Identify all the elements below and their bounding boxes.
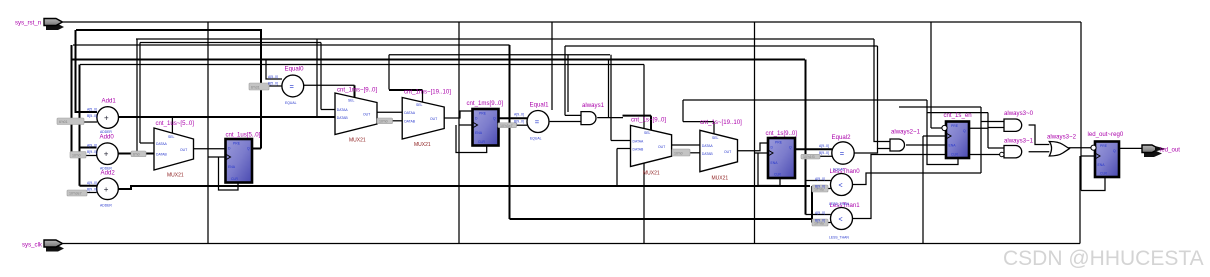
svg-text:+: +	[104, 150, 109, 159]
wire x805.5 riser	[805, 60, 807, 215]
svg-text:MUX21: MUX21	[167, 173, 184, 179]
constant cnt_1s q gray	[801, 154, 820, 159]
svg-text:CLR: CLR	[1100, 172, 1107, 176]
svg-text:A[9..0]: A[9..0]	[819, 144, 829, 148]
comparator Equal2	[832, 142, 854, 164]
svg-text:Equal1: Equal1	[530, 102, 550, 109]
wire equal2 b stub	[820, 155, 832, 157]
svg-text:CLR: CLR	[951, 153, 958, 157]
svg-text:A[9..0]: A[9..0]	[87, 181, 97, 185]
wire always2 out to reg d	[906, 144, 946, 146]
wire mux5 sel route	[683, 100, 714, 134]
wire vertical x552	[551, 22, 553, 110]
output pin led_out	[1142, 145, 1166, 157]
svg-text:led_out: led_out	[1160, 147, 1180, 154]
adder Add2	[97, 178, 119, 200]
svg-text:Equal2: Equal2	[832, 134, 852, 141]
svg-text:A[9..0]: A[9..0]	[815, 177, 825, 181]
svg-text:=: =	[290, 82, 295, 91]
constant mux1 datab	[131, 151, 146, 157]
comparator Equal1	[527, 111, 549, 133]
wire add2 out long y186	[119, 186, 811, 189]
wire reg_en loop	[927, 100, 958, 165]
svg-text:CLR: CLR	[231, 177, 238, 181]
constant between mux2 mux3	[377, 118, 393, 124]
svg-text:cnt_1s_en: cnt_1s_en	[944, 112, 972, 119]
svg-text:EQUAL: EQUAL	[833, 168, 845, 172]
wire led reg clk stub	[1081, 155, 1095, 157]
wire y54.7 segment	[389, 54, 610, 56]
comparator Equal0	[282, 75, 304, 97]
wire and1 bottom in	[988, 127, 1004, 129]
input pin sys_rst_n	[44, 19, 64, 31]
wire add1 out long to mux2 datab	[118, 116, 335, 118]
svg-text:ADDER: ADDER	[100, 204, 112, 208]
svg-text:OUT: OUT	[430, 117, 437, 121]
svg-text:OUT: OUT	[658, 145, 665, 149]
mux cnt_1ms~[9..0]	[335, 93, 377, 135]
wire vertical x923 clk	[922, 136, 924, 244]
svg-text:cnt_1s~[9..0]: cnt_1s~[9..0]	[631, 117, 666, 124]
svg-text:DATAB: DATAB	[633, 148, 645, 152]
wire y39 bus	[136, 38, 874, 40]
mux cnt_1ms~[19..10]	[402, 98, 444, 140]
register cnt_1us[5..0]	[226, 139, 253, 183]
wire vertical x509.5	[509, 45, 511, 219]
svg-text:6'h0: 6'h0	[133, 152, 140, 156]
gate always3~1 AND	[1000, 146, 1022, 158]
svg-text:LESS_THAN: LESS_THAN	[829, 202, 849, 206]
svg-text:PRE: PRE	[775, 141, 783, 145]
wire reg1us clr loop	[219, 157, 239, 190]
svg-text:ENA: ENA	[949, 144, 957, 148]
svg-text:always2~1: always2~1	[891, 129, 921, 136]
svg-text:10'h1f3: 10'h1f3	[803, 155, 815, 159]
svg-text:MUX21: MUX21	[414, 142, 431, 148]
wire add2 b stub	[87, 192, 97, 194]
constant Add2 B	[67, 190, 87, 196]
svg-text:A[9..0]: A[9..0]	[514, 113, 524, 117]
wire or out to led reg	[1069, 147, 1091, 149]
svg-text:B[9..0]: B[9..0]	[815, 219, 825, 223]
svg-text:cnt_1ms~[9..0]: cnt_1ms~[9..0]	[337, 87, 377, 94]
svg-text:EQUAL: EQUAL	[285, 101, 297, 105]
wire y59.5 bus	[72, 59, 805, 61]
svg-text:=: =	[840, 149, 845, 158]
wire x1080 clk riser	[1079, 156, 1081, 244]
svg-text:Add0: Add0	[100, 133, 115, 140]
svg-text:B[9..0]: B[9..0]	[87, 150, 97, 154]
svg-text:ENA: ENA	[771, 161, 779, 165]
svg-text:+: +	[104, 185, 109, 194]
wire equal1 b in	[517, 124, 528, 126]
wire lessthan1 b stub	[812, 222, 831, 224]
wire riser x137	[136, 39, 138, 154]
svg-text:CSDN @HHUCESTA: CSDN @HHUCESTA	[1003, 247, 1204, 270]
wire y46 segment right	[565, 45, 878, 47]
svg-text:B[5..0]: B[5..0]	[268, 82, 278, 86]
wire x988 riser	[987, 113, 989, 148]
svg-text:A[9..0]: A[9..0]	[87, 144, 97, 148]
register cnt_1ms[9..0]	[473, 109, 499, 146]
wire and1 top in	[981, 121, 1004, 123]
wire vertical x459	[458, 22, 460, 244]
wire reg1us clk stub	[208, 156, 226, 158]
svg-text:DATAA: DATAA	[156, 142, 168, 146]
svg-text:B[9..0]: B[9..0]	[514, 120, 524, 124]
adder Add0	[97, 143, 119, 165]
svg-text:cnt_1us[5..0]: cnt_1us[5..0]	[226, 132, 261, 139]
svg-text:sys_rst_n: sys_rst_n	[15, 20, 41, 27]
svg-text:+: +	[104, 114, 109, 123]
wire reg1s q out to equal2 a	[795, 148, 832, 150]
svg-text:B[9..0]: B[9..0]	[815, 185, 825, 189]
wire add0 out to mux1 datab	[118, 153, 155, 155]
wire equal1 out to and	[550, 121, 581, 123]
wire mux5 datab const stub	[690, 152, 700, 154]
wire sys_clk net bottom	[63, 243, 1080, 245]
svg-text:PRE: PRE	[479, 112, 487, 116]
svg-text:Equal0: Equal0	[285, 66, 305, 73]
svg-text:<: <	[839, 183, 843, 190]
wire x877.5 riser	[877, 46, 879, 149]
wire y45 bus	[73, 44, 510, 46]
wire y219 long	[510, 218, 813, 220]
wire left riser x71.5	[71, 45, 73, 155]
svg-text:SEL: SEL	[348, 99, 355, 103]
wire lessthan0 out route	[853, 173, 982, 185]
svg-text:DATAA: DATAA	[633, 140, 645, 144]
wire mux3 datab stub	[393, 120, 404, 122]
wire vertical x208 clk riser	[207, 22, 209, 244]
svg-text:cnt_1ms~[19..10]: cnt_1ms~[19..10]	[404, 89, 451, 96]
wire sys_rst_n net top	[63, 21, 1081, 23]
wire vertical x644	[643, 65, 645, 244]
wire mux4 dataa riser x611	[611, 55, 631, 141]
svg-text:MUX21: MUX21	[643, 171, 660, 177]
svg-text:10'h0: 10'h0	[674, 151, 683, 155]
svg-text:SEL: SEL	[416, 103, 423, 107]
wire reg_en q out	[969, 127, 988, 129]
wire and1 out to or	[1029, 125, 1050, 145]
svg-text:DATAB: DATAB	[156, 152, 168, 156]
wire mux3 sel route	[388, 55, 390, 90]
svg-text:Q: Q	[247, 147, 250, 151]
svg-text:cnt_1s[9..0]: cnt_1s[9..0]	[766, 130, 798, 137]
svg-text:PRE: PRE	[233, 142, 241, 146]
svg-text:Add2: Add2	[101, 170, 116, 177]
wire add0 b stub	[86, 155, 97, 157]
wire x317 riser	[316, 39, 318, 117]
gate always3~2 OR	[1049, 142, 1069, 157]
svg-text:CLR: CLR	[478, 140, 485, 144]
svg-text:<: <	[839, 217, 843, 224]
svg-text:sys_clk: sys_clk	[22, 242, 43, 249]
wire vertical x754.5	[754, 22, 756, 244]
wire left riser x75.5 add1 a	[76, 30, 98, 112]
wire and2 out to or	[1029, 151, 1050, 153]
svg-text:ENA: ENA	[1098, 163, 1106, 167]
svg-text:PRE: PRE	[951, 124, 959, 128]
wire and2 top in	[988, 147, 1004, 149]
wire always1 out	[597, 117, 623, 119]
svg-text:SEL: SEL	[712, 136, 719, 140]
svg-text:LESS_THAN: LESS_THAN	[829, 236, 849, 240]
svg-text:B[9..0]: B[9..0]	[819, 151, 829, 155]
svg-text:DATAA: DATAA	[702, 144, 714, 148]
svg-text:always3~0: always3~0	[1004, 110, 1034, 117]
wire mux4 sel thick	[623, 116, 652, 131]
wire x608.5 riser	[608, 60, 610, 118]
wire x568	[567, 55, 569, 112]
input pin sys_clk	[44, 240, 64, 252]
svg-text:PRE: PRE	[1100, 144, 1108, 148]
svg-text:cnt_1ms[9..0]: cnt_1ms[9..0]	[467, 100, 504, 107]
wire equal0 b in	[269, 85, 282, 87]
wire always1 top input riser x565	[565, 46, 581, 115]
svg-text:SEL: SEL	[644, 131, 651, 135]
comparator LessThan0	[831, 174, 853, 196]
wire y100 segment	[683, 99, 927, 101]
wire reg1s clk stub	[755, 152, 769, 154]
gate always2~1 AND	[890, 139, 905, 151]
wire mux3 out jog to reg d	[444, 111, 472, 118]
svg-text:Add1: Add1	[102, 98, 117, 105]
wire always2 top in riser x874	[874, 39, 890, 142]
wire equal2 out to and	[855, 149, 891, 154]
svg-text:cnt_1s~[19..10]: cnt_1s~[19..10]	[700, 119, 742, 126]
wire vertical x931	[930, 22, 932, 128]
wire cnt_1us_en bus y30	[76, 29, 262, 31]
svg-text:SEL: SEL	[168, 135, 175, 139]
gate always3~0 AND	[1004, 119, 1022, 131]
wire equal0 out to mux2 sel	[304, 84, 355, 86]
mux cnt_1s~[19..10]	[700, 130, 738, 171]
wire x981 riser	[980, 107, 982, 173]
wire mux1 sel riser	[171, 117, 173, 133]
wire reg1ms clr loop	[456, 125, 487, 153]
wire lessthan0 b stub	[812, 188, 831, 190]
svg-text:Q: Q	[963, 129, 966, 133]
svg-text:DATAA: DATAA	[404, 111, 416, 115]
wire lessthan1 a stub	[806, 214, 831, 216]
wire reg1us q up riser	[253, 30, 262, 149]
wire reg1ms q out to equal1 a	[499, 117, 528, 119]
wire lessthan1 out route	[853, 155, 1002, 219]
svg-text:A[5..0]: A[5..0]	[87, 108, 97, 112]
svg-text:A[5..0]: A[5..0]	[268, 75, 278, 79]
svg-text:B[9..0]: B[9..0]	[87, 188, 97, 192]
wire add1 b stub	[84, 121, 97, 123]
wire reg_en pre stub	[931, 127, 944, 129]
wire y42.5 bus to mux2 dataa	[140, 43, 335, 110]
wire mux2 out to mux3	[377, 111, 403, 113]
svg-text:Q: Q	[1113, 149, 1116, 153]
svg-text:=: =	[535, 118, 540, 127]
wire lessthan0 a stub	[806, 180, 831, 182]
wire reg1ms clk stub	[459, 124, 473, 126]
wire equal0 a in	[266, 60, 282, 80]
svg-text:Q: Q	[789, 146, 792, 150]
register cnt_1s_en	[942, 122, 969, 159]
constant equal1 a	[498, 123, 517, 128]
svg-text:always1: always1	[582, 102, 605, 109]
wire mux1 out to reg d	[194, 148, 226, 150]
svg-text:DATAA: DATAA	[337, 108, 349, 112]
svg-text:cnt_1us~[5..0]: cnt_1us~[5..0]	[156, 120, 195, 127]
wire left riser x79.5 add0/add2 a	[79, 65, 81, 186]
svg-text:10'h0: 10'h0	[379, 119, 388, 123]
wire x812 riser	[811, 186, 813, 223]
svg-text:10'h3e7: 10'h3e7	[69, 192, 82, 196]
wire mux4 datab riser x617	[617, 149, 631, 187]
wire y107 segment	[899, 106, 981, 108]
svg-text:ENA: ENA	[228, 165, 236, 169]
svg-text:B[5..0]: B[5..0]	[87, 114, 97, 118]
svg-text:always3~1: always3~1	[1004, 138, 1034, 145]
adder Add1	[97, 107, 119, 129]
constant Add1 B	[57, 118, 84, 125]
constant Equal0 B	[249, 83, 269, 90]
gate always1 AND	[581, 112, 596, 125]
wire reg_en clk stub	[923, 135, 946, 137]
svg-text:OUT: OUT	[363, 113, 370, 117]
wire riser x140 mux1 dataa	[140, 43, 155, 144]
wire y64.5 bus	[80, 64, 644, 66]
constant lessthan1 b	[812, 219, 828, 226]
wire mux4 out to mux5	[672, 144, 700, 146]
svg-text:6'h31: 6'h31	[251, 85, 260, 89]
mux cnt_1s~[9..0]	[631, 125, 672, 166]
svg-text:CLR: CLR	[774, 173, 781, 177]
wire mux5 out jog to reg d	[738, 143, 769, 151]
wire vertical x1081 rst right	[1080, 22, 1082, 191]
svg-text:6'h01: 6'h01	[59, 120, 68, 124]
constant lessthan0 b	[812, 185, 828, 192]
svg-text:OUT: OUT	[180, 148, 187, 152]
svg-text:MUX21: MUX21	[349, 138, 366, 144]
svg-text:led_out~reg0: led_out~reg0	[1088, 131, 1124, 138]
svg-text:DATAB: DATAB	[702, 152, 714, 156]
svg-text:DATAB: DATAB	[404, 120, 416, 124]
register led_out~reg0	[1091, 142, 1119, 178]
wire led reg q to pin	[1119, 147, 1142, 149]
wire y112.6 segment	[927, 112, 988, 114]
constant between mux4 mux5	[672, 149, 690, 156]
constant Add0 B	[70, 152, 86, 159]
svg-text:A[9..0]: A[9..0]	[815, 211, 825, 215]
svg-text:MUX21: MUX21	[712, 176, 729, 182]
wire reg1s clr loop	[758, 153, 780, 186]
svg-text:10'h0: 10'h0	[72, 154, 81, 158]
svg-text:EQUAL: EQUAL	[530, 137, 542, 141]
svg-text:Q: Q	[493, 117, 496, 121]
register cnt_1s[9..0]	[768, 138, 795, 178]
svg-text:OUT: OUT	[724, 150, 731, 154]
svg-text:10'h3e7: 10'h3e7	[500, 124, 513, 128]
mux cnt_1us~[5..0]	[154, 128, 194, 170]
svg-text:DATAB: DATAB	[337, 116, 349, 120]
wire led reg clr loop	[1081, 177, 1105, 191]
svg-text:ENA: ENA	[475, 131, 483, 135]
svg-text:always3~2: always3~2	[1047, 134, 1077, 141]
comparator LessThan1	[831, 208, 853, 230]
